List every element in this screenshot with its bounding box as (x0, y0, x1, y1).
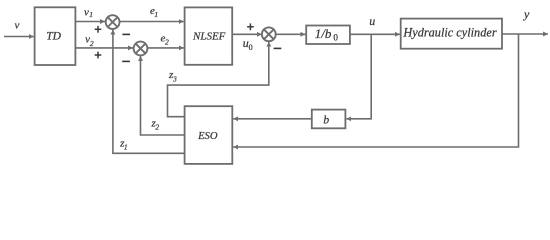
svg-text:2: 2 (165, 37, 169, 46)
svg-text:Hydraulic cylinder: Hydraulic cylinder (402, 26, 496, 40)
svg-text:1: 1 (154, 10, 158, 19)
wire z3 from ESO to junction S3 (168, 42, 269, 117)
wire v input (4, 36, 34, 38)
block hydraulic cylinder (401, 19, 502, 49)
summing junction S1 (106, 15, 120, 29)
wire u0 from NLSEF to junction S3 (232, 33, 262, 35)
svg-text:u: u (369, 14, 375, 28)
svg-text:b: b (323, 115, 329, 127)
wire z2 from ESO to junction S2 (141, 56, 185, 135)
summing junction S2 (134, 42, 148, 56)
wire z1 from ESO to junction S1 (113, 30, 185, 154)
block NLSEF (185, 7, 233, 64)
svg-text:y: y (523, 7, 530, 21)
svg-text:2: 2 (90, 39, 94, 48)
wire junction S3 to 1/b0 (276, 33, 306, 35)
svg-text:1: 1 (124, 142, 128, 151)
wire e2 (147, 47, 183, 49)
block TD (35, 7, 76, 65)
sign plus at junction S3 (247, 23, 254, 30)
wire v1 (75, 21, 105, 23)
wire v2 (75, 47, 132, 49)
block 1/b0 (306, 26, 350, 45)
wire u branch to b (346, 34, 371, 119)
svg-text:3: 3 (172, 74, 177, 83)
block ESO (185, 106, 233, 164)
wire e1 (120, 21, 184, 23)
sign minus at junction S2 (122, 60, 130, 62)
sign minus at junction S3 (274, 47, 282, 49)
wire y output (502, 33, 548, 35)
svg-text:0: 0 (333, 32, 338, 42)
svg-text:NLSEF: NLSEF (192, 31, 226, 43)
wire u to hydraulic cylinder (350, 33, 400, 35)
sign minus at junction S1 (122, 33, 130, 35)
block b (312, 110, 346, 129)
wire b to ESO (233, 118, 312, 120)
svg-text:0: 0 (249, 43, 253, 52)
svg-text:2: 2 (155, 122, 159, 131)
svg-text:1: 1 (89, 10, 93, 19)
wire y feedback to ESO (233, 34, 518, 147)
sign plus at junction S1 (95, 26, 102, 33)
summing junction S3 (262, 27, 276, 41)
svg-text:v: v (15, 20, 20, 32)
svg-text:TD: TD (46, 31, 61, 43)
svg-text:ESO: ESO (197, 131, 218, 142)
svg-text:1/b: 1/b (315, 26, 332, 41)
sign plus at junction S2 (95, 52, 102, 59)
